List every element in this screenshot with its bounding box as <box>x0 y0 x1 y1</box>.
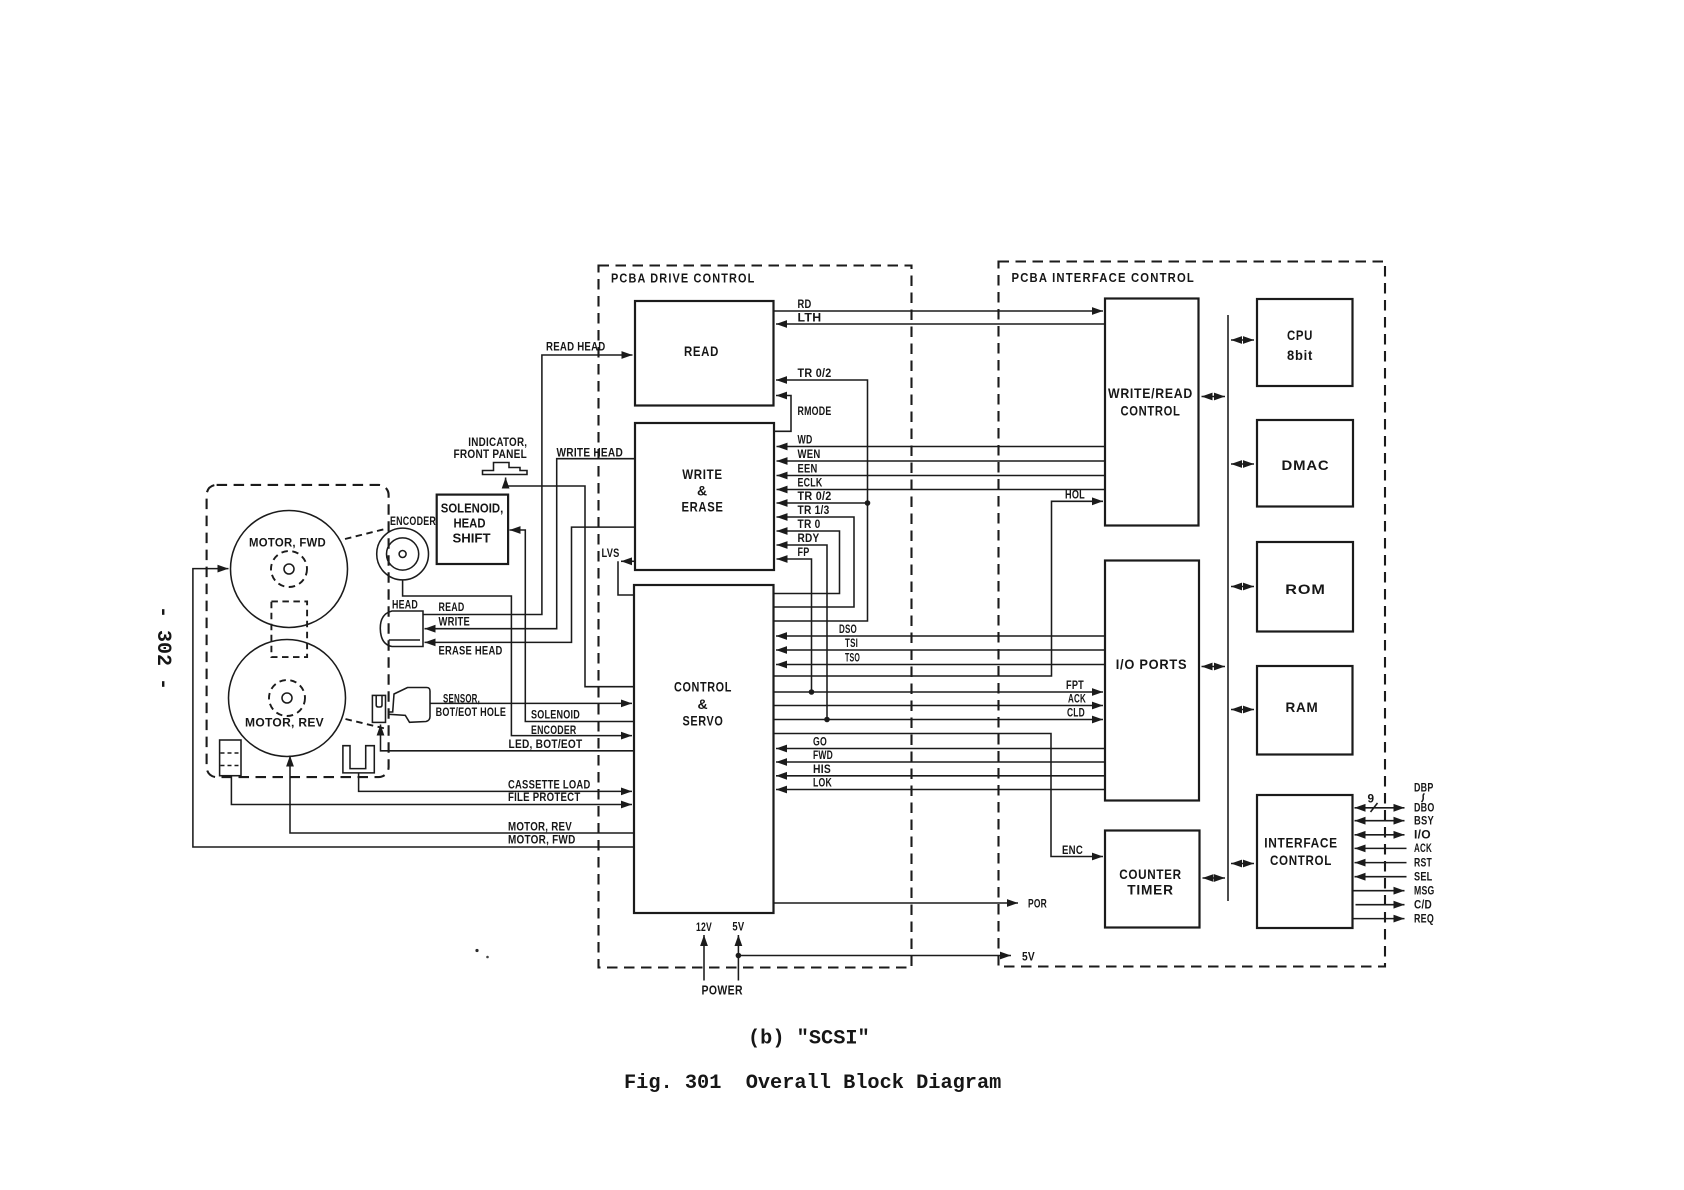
svg-text:&: & <box>698 696 709 712</box>
bus link RAM <box>1231 709 1254 711</box>
wire 5V to interface <box>738 949 1035 963</box>
svg-text:8bit: 8bit <box>1287 347 1313 363</box>
svg-text:MOTOR, FWD: MOTOR, FWD <box>508 833 576 847</box>
wire WRITE (W&E to head) <box>425 446 636 629</box>
wire SEL <box>1355 870 1433 884</box>
bus link ROM <box>1231 586 1254 588</box>
label INDICATOR, FRONT PANEL <box>454 435 528 461</box>
svg-text:FPT: FPT <box>1066 678 1084 692</box>
svg-text:I/O: I/O <box>1414 828 1431 842</box>
wire EEN <box>777 462 1106 476</box>
dashed enclosure PCBA DRIVE CONTROL <box>599 266 912 968</box>
svg-text:RDY: RDY <box>798 531 820 545</box>
block CPU 8bit <box>1257 299 1353 386</box>
wire RD (READ to WRITE/READ CONTROL) <box>774 297 1104 311</box>
svg-text:FRONT PANEL: FRONT PANEL <box>454 447 528 461</box>
svg-text:SERVO: SERVO <box>683 713 724 729</box>
file protect switch (striped box) <box>220 740 241 776</box>
svg-text:READ: READ <box>684 343 719 359</box>
wire HIS <box>776 762 1105 776</box>
svg-text:INTERFACE: INTERFACE <box>1264 835 1338 851</box>
svg-text:PCBA DRIVE CONTROL: PCBA DRIVE CONTROL <box>611 271 756 286</box>
svg-text:PCBA INTERFACE CONTROL: PCBA INTERFACE CONTROL <box>1012 270 1196 285</box>
svg-text:RD: RD <box>798 297 812 311</box>
junction FP/FPT <box>809 689 815 695</box>
svg-text:MOTOR, FWD: MOTOR, FWD <box>249 536 326 550</box>
svg-text:WRITE: WRITE <box>682 466 723 482</box>
wire LED, BOT/EOT <box>381 725 635 752</box>
motor M1 MOTOR, FWD <box>231 511 348 628</box>
svg-text:SOLENOID: SOLENOID <box>531 708 580 722</box>
wire ENC <box>774 734 1104 858</box>
bus link I/O PORTS <box>1202 666 1226 668</box>
svg-text:CLD: CLD <box>1067 706 1085 720</box>
wire ENCODER (pulley to C&S) <box>403 580 632 737</box>
svg-text:BSY: BSY <box>1414 814 1434 828</box>
dashed enclosure PCBA INTERFACE CONTROL <box>999 262 1386 967</box>
block COUNTER TIMER <box>1105 831 1200 928</box>
svg-text:TR 0/2: TR 0/2 <box>798 366 832 380</box>
junction TR 0/2 <box>865 500 871 506</box>
wire MSG <box>1353 884 1435 898</box>
wire MOTOR, REV <box>290 756 634 834</box>
svg-text:C/D: C/D <box>1414 898 1432 912</box>
bus link WRITE/READ CONTROL <box>1202 396 1226 398</box>
tape head <box>380 598 423 647</box>
svg-text:MSG: MSG <box>1414 884 1435 898</box>
wire DBO (bidirectional, bundle of 9) <box>1355 792 1435 815</box>
power input 12V <box>696 920 712 981</box>
svg-text:LTH: LTH <box>798 311 822 325</box>
bus link DMAC <box>1231 463 1254 465</box>
wire indicator drive <box>506 478 634 687</box>
svg-text:RST: RST <box>1414 855 1432 869</box>
cassette load switch (U shape) <box>343 746 374 773</box>
wire LTH <box>776 311 1105 325</box>
svg-text:CPU: CPU <box>1287 327 1313 343</box>
motor M1 hub dashed <box>271 551 307 587</box>
scsi bus label DBP with tie <box>1414 781 1434 803</box>
cassette outline dashed <box>271 601 307 657</box>
wire I/O <box>1355 828 1432 842</box>
wire ACK scsi <box>1355 841 1433 855</box>
bus link INTERFACE CONTROL <box>1231 863 1254 865</box>
svg-text:CONTROL: CONTROL <box>1270 852 1332 868</box>
belt dashed link lower <box>346 719 388 729</box>
encoder pulley <box>377 514 436 580</box>
block READ <box>635 301 774 406</box>
wire TSI <box>776 636 1105 650</box>
svg-text:SEL: SEL <box>1414 870 1433 884</box>
wire CASSETTE LOAD <box>359 773 632 792</box>
wire WEN <box>777 447 1106 461</box>
svg-text:READ HEAD: READ HEAD <box>546 340 606 354</box>
junction 5V branch <box>736 953 742 959</box>
svg-text:ENCODER: ENCODER <box>531 723 577 737</box>
svg-text:BOT/EOT HOLE: BOT/EOT HOLE <box>436 705 507 719</box>
svg-text:ENC: ENC <box>1062 843 1083 857</box>
block WRITE & ERASE <box>635 423 774 570</box>
junction RDY/CLD <box>824 717 830 723</box>
block SOLENOID, HEAD SHIFT <box>437 495 508 564</box>
svg-text:READ: READ <box>439 600 465 614</box>
dashed mechanism enclosure (transport) <box>207 485 389 777</box>
block I/O PORTS <box>1105 561 1199 801</box>
svg-text:RAM: RAM <box>1286 699 1319 715</box>
wire BSY <box>1355 814 1435 828</box>
wire DSO <box>776 622 1105 636</box>
svg-text:MOTOR, REV: MOTOR, REV <box>245 716 324 730</box>
wire SENSOR, BOT/EOT HOLE <box>430 691 632 719</box>
wire HOL <box>774 488 1104 677</box>
wire LOK <box>776 776 1105 790</box>
BOT/EOT sensor body <box>389 688 430 723</box>
wire C/D <box>1356 898 1433 912</box>
wire FILE PROTECT <box>231 776 632 805</box>
svg-text:DBO: DBO <box>1414 801 1435 815</box>
wire TSO <box>776 651 1105 665</box>
svg-text:SENSOR,: SENSOR, <box>443 691 480 705</box>
block WRITE/READ CONTROL <box>1105 299 1199 526</box>
svg-text:SOLENOID,: SOLENOID, <box>441 501 504 515</box>
svg-text:GO: GO <box>813 735 827 749</box>
svg-text:&: & <box>697 483 708 499</box>
svg-text:(b) "SCSI": (b) "SCSI" <box>748 1028 870 1051</box>
LED holder <box>372 695 385 722</box>
wire TR 0 <box>774 517 840 594</box>
wire GO <box>776 735 1105 749</box>
block INTERFACE CONTROL <box>1257 795 1353 928</box>
wire TR 1/3 <box>774 503 855 607</box>
belt dashed link upper <box>345 529 387 540</box>
svg-text:LOK: LOK <box>813 776 832 790</box>
wire WD <box>777 433 1106 447</box>
svg-text:WRITE/READ: WRITE/READ <box>1108 385 1193 401</box>
svg-text:5V: 5V <box>1022 949 1035 963</box>
svg-text:DMAC: DMAC <box>1282 457 1330 473</box>
svg-text:TIMER: TIMER <box>1127 882 1174 898</box>
svg-text:POWER: POWER <box>702 983 744 998</box>
svg-text:CONTROL: CONTROL <box>1121 403 1181 419</box>
indicator symbol (front panel profile) <box>483 463 528 475</box>
wire POR <box>774 897 1048 911</box>
svg-text:CONTROL: CONTROL <box>674 679 732 695</box>
system data bus (vertical) <box>1227 315 1229 901</box>
svg-text:LVS: LVS <box>602 546 620 560</box>
svg-text:FILE PROTECT: FILE PROTECT <box>508 790 581 804</box>
wire LVS <box>602 546 636 595</box>
stray speck <box>475 949 488 958</box>
bus link COUNTER TIMER <box>1203 877 1226 879</box>
wire FWD <box>776 748 1105 762</box>
svg-text:HOL: HOL <box>1065 488 1085 502</box>
wire RDY <box>777 531 828 720</box>
motor M2 MOTOR, REV <box>229 640 346 757</box>
svg-text:ACK: ACK <box>1068 692 1086 706</box>
wire SOLENOID <box>510 530 635 722</box>
wire FPT <box>774 678 1104 692</box>
svg-text:ACK: ACK <box>1414 841 1432 855</box>
svg-text:ENCODER: ENCODER <box>390 514 436 528</box>
svg-text:12V: 12V <box>696 920 712 934</box>
wire FP <box>777 545 812 692</box>
svg-text:TR 0/2: TR 0/2 <box>798 489 832 503</box>
block ROM <box>1257 542 1353 632</box>
svg-text:RMODE: RMODE <box>798 404 832 418</box>
bus link CPU <box>1231 339 1254 341</box>
wire ACK drive side <box>774 692 1104 706</box>
svg-text:5V: 5V <box>732 920 744 934</box>
wire RMODE loop <box>774 396 832 432</box>
wire ERASE HEAD <box>425 527 636 657</box>
svg-text:FWD: FWD <box>813 748 833 762</box>
wire RST <box>1355 855 1433 869</box>
svg-text:WEN: WEN <box>798 447 821 461</box>
page number - 302 - rotated <box>151 606 174 690</box>
svg-text:Fig. 301 Overall Block Diagra: Fig. 301 Overall Block Diagram <box>624 1072 1001 1095</box>
svg-text:WRITE: WRITE <box>439 615 471 629</box>
svg-text:TSI: TSI <box>845 636 858 650</box>
svg-text:DSO: DSO <box>839 622 857 636</box>
power input 5V <box>732 920 744 981</box>
wire REQ <box>1353 911 1435 925</box>
svg-text:HEAD: HEAD <box>392 598 418 612</box>
svg-text:ERASE HEAD: ERASE HEAD <box>439 643 503 657</box>
wire READ (head to READ block) <box>423 340 633 615</box>
svg-text:WRITE HEAD: WRITE HEAD <box>557 446 624 460</box>
block RAM <box>1257 666 1353 755</box>
svg-text:EEN: EEN <box>798 462 818 476</box>
svg-text:WD: WD <box>798 433 813 447</box>
svg-text:SHIFT: SHIFT <box>453 531 491 545</box>
svg-text:ECLK: ECLK <box>798 476 823 490</box>
svg-text:9: 9 <box>1368 792 1375 806</box>
wire MOTOR, FWD <box>193 569 634 847</box>
svg-text:DBP: DBP <box>1414 781 1434 795</box>
wire TR 0/2 into READ <box>774 366 868 621</box>
svg-text:FP: FP <box>798 545 810 559</box>
caption (b) "SCSI" <box>748 1028 870 1051</box>
caption Fig. 301 Overall Block Diagram <box>624 1072 1001 1095</box>
svg-text:ERASE: ERASE <box>682 499 724 515</box>
svg-text:TR 0: TR 0 <box>798 517 821 531</box>
label POWER <box>702 983 744 998</box>
svg-text:ROM: ROM <box>1285 581 1326 597</box>
svg-text:TSO: TSO <box>845 651 860 665</box>
block DMAC <box>1257 420 1353 507</box>
svg-text:POR: POR <box>1028 897 1047 911</box>
svg-text:- 302 -: - 302 - <box>151 606 174 690</box>
svg-text:I/O PORTS: I/O PORTS <box>1116 656 1188 672</box>
svg-text:COUNTER: COUNTER <box>1119 866 1182 882</box>
wire CLD <box>774 706 1104 720</box>
svg-text:REQ: REQ <box>1414 911 1434 925</box>
svg-text:LED, BOT/EOT: LED, BOT/EOT <box>509 737 583 751</box>
block CONTROL & SERVO <box>634 585 774 913</box>
wire ECLK <box>777 476 1106 490</box>
svg-text:HEAD: HEAD <box>454 516 486 530</box>
motor M2 hub dashed <box>269 680 305 716</box>
wire TR 0/2 into WRITE & ERASE <box>777 489 868 503</box>
svg-text:MOTOR, REV: MOTOR, REV <box>508 819 572 833</box>
svg-text:TR 1/3: TR 1/3 <box>798 503 830 517</box>
svg-text:HIS: HIS <box>813 762 831 776</box>
